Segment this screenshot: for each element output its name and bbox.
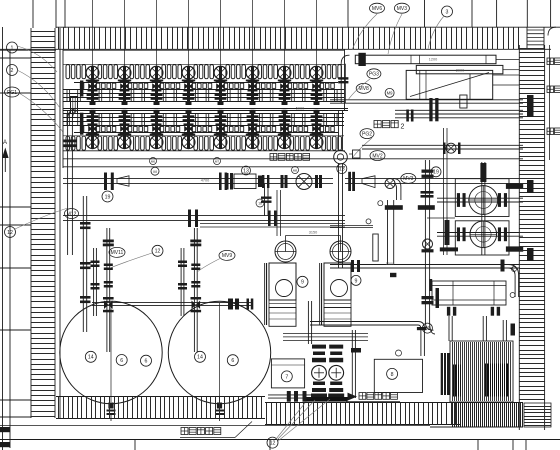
- leader curves left: [15, 46, 68, 229]
- tank T2: [168, 301, 270, 421]
- drop pipe x266: [261, 184, 272, 216]
- pipe A flange pair mid: [219, 173, 227, 191]
- tag M9: [385, 88, 394, 97]
- bubble 13 elbow: [422, 323, 432, 333]
- dim text 1: [429, 58, 437, 62]
- bubble 8: [387, 368, 398, 379]
- blower pipe 1: [437, 198, 523, 202]
- left margin black bar 2: [0, 442, 10, 447]
- bubble 12 tanks: [152, 245, 163, 256]
- drop pipe square box: [349, 150, 360, 158]
- pump top pipes: [283, 330, 368, 398]
- svg-text:M9: M9: [387, 91, 393, 96]
- svg-text:9: 9: [301, 280, 304, 286]
- corner fine hatch block: [450, 341, 513, 402]
- svg-text:PG2: PG2: [362, 131, 372, 137]
- flange pair x432: [429, 98, 438, 121]
- riser valve circle: [422, 239, 434, 252]
- valve unit row1 #2: [118, 0, 131, 105]
- svg-text:MV11: MV11: [111, 250, 124, 256]
- bubble 14 T1: [85, 351, 96, 362]
- corner dark bars: [441, 353, 450, 395]
- pipe B extra pair: [200, 224, 345, 227]
- long line under modules: [63, 151, 523, 167]
- bottom stub lines: [135, 440, 526, 450]
- wall hatching top band: [0, 27, 560, 49]
- mid pipe A: [63, 179, 333, 184]
- dim text 4: [201, 179, 209, 183]
- svg-text:PG1: PG1: [7, 90, 17, 96]
- capsule row1: [63, 64, 344, 78]
- tiny bubble b: [366, 219, 371, 224]
- blower pipe 2: [437, 233, 523, 237]
- gauge PG2: [360, 129, 374, 139]
- right wall flange 3: [527, 248, 534, 261]
- black bar x437: [436, 288, 440, 308]
- bubble 13 pipeA: [242, 166, 251, 175]
- svg-text:1500: 1500: [386, 262, 394, 266]
- pipe y180 flange pair: [348, 172, 355, 191]
- bubble 9 skid: [297, 276, 308, 287]
- section arrow A: [2, 140, 9, 172]
- svg-text:2: 2: [11, 68, 14, 74]
- label yubeilianjiekou: [180, 422, 252, 438]
- tiny tag m8: [292, 167, 299, 174]
- wall hatching bottom band left: [56, 397, 265, 419]
- valve unit row2 #5: [214, 110, 227, 149]
- corner lower dense band: [430, 403, 523, 428]
- tag MV8: [356, 83, 371, 93]
- tank leader curves: [110, 253, 221, 272]
- rect wall connectors: [493, 60, 519, 86]
- svg-text:19: 19: [105, 194, 111, 200]
- rack rail row1: [74, 82, 338, 84]
- svg-text:6: 6: [120, 358, 123, 364]
- pipe y266: [330, 260, 520, 272]
- label nongye-paifangkou: [270, 154, 310, 161]
- bubble 6 T1a: [116, 355, 127, 366]
- top tag MV6: [370, 3, 385, 13]
- wall hatching bottom band right: [265, 403, 460, 425]
- box 7: [271, 359, 304, 388]
- bottom frame line 2: [0, 439, 560, 441]
- center header pipe: [63, 109, 348, 111]
- tiny tag m7: [214, 158, 221, 165]
- valve unit row2 #4: [182, 110, 195, 149]
- blower U2: [470, 221, 497, 248]
- black duct r2: [506, 246, 523, 251]
- pipe B flange pair: [268, 211, 277, 227]
- svg-text:12: 12: [155, 249, 161, 255]
- black duct r1: [506, 184, 523, 189]
- svg-text:MV3: MV3: [397, 6, 408, 12]
- blower box upper: [455, 179, 509, 217]
- capsule row2: [63, 136, 344, 150]
- riser V2: [80, 196, 91, 332]
- pipe y100: [330, 100, 523, 103]
- pipe A flange pair right: [262, 175, 269, 188]
- top bubble 3: [442, 6, 453, 17]
- top leader curves: [348, 14, 444, 158]
- riser flange y205: [418, 205, 435, 210]
- svg-text:12: 12: [270, 440, 276, 446]
- top right corner arc: [548, 27, 556, 35]
- line y218 right: [427, 217, 455, 219]
- valve unit row1 #6: [246, 0, 259, 105]
- mid pipe B: [63, 216, 345, 221]
- valve unit row1 #3: [150, 0, 163, 105]
- manifold pipes row1: [63, 90, 344, 102]
- valve unit row2 #6: [246, 110, 259, 149]
- blower box lower: [455, 221, 509, 255]
- pump P2: [328, 345, 344, 398]
- bubble 13 drop: [337, 164, 347, 174]
- valve tag M12: [65, 209, 79, 219]
- pipe y266 black flange: [501, 260, 505, 272]
- left margin frame lines: [0, 27, 56, 450]
- rack rail row2: [74, 132, 338, 134]
- elbow x397 down: [393, 179, 401, 200]
- pump feed riser: [308, 301, 311, 344]
- svg-text:MV6: MV6: [372, 6, 383, 12]
- tiny tag m6: [150, 158, 157, 165]
- svg-text:M: M: [153, 169, 156, 174]
- main riser x427: [422, 160, 436, 334]
- pipe A valve box: [226, 173, 265, 190]
- svg-text:19: 19: [433, 170, 439, 176]
- svg-text:6: 6: [231, 358, 234, 364]
- valve unit row1 #7: [278, 0, 291, 105]
- row1 left end cap: [80, 81, 83, 97]
- equipment rect: [406, 70, 493, 99]
- tag MV11: [109, 247, 125, 257]
- bottom frame line 1: [0, 425, 430, 427]
- valve circle y182: [385, 179, 395, 189]
- cross pipe end black: [228, 299, 239, 310]
- bubble 19 riser: [431, 167, 441, 177]
- valve unit row2 #1: [86, 110, 99, 149]
- blower U1: [468, 185, 498, 215]
- row2 left end cap: [80, 113, 83, 135]
- valve unit row2 #3: [150, 110, 163, 149]
- svg-text:M12: M12: [67, 211, 77, 217]
- top grid lines: [33, 0, 551, 28]
- gauge PG1: [5, 87, 20, 97]
- aeration duct: [429, 279, 506, 305]
- svg-text:14: 14: [197, 355, 203, 361]
- dim text 5: [386, 262, 394, 266]
- header right drop pipe: [339, 111, 343, 150]
- manifold ticks row2: [67, 114, 337, 126]
- module zone frame: [63, 49, 345, 168]
- svg-text:8: 8: [391, 372, 394, 378]
- svg-text:12: 12: [7, 230, 13, 236]
- black duct l1: [440, 247, 458, 251]
- svg-text:2000: 2000: [456, 69, 464, 73]
- tag MV3 mid: [401, 173, 416, 183]
- vert pipe x390: [385, 200, 403, 277]
- valve unit row1 #4: [182, 0, 195, 105]
- wall hatching left ladder: [31, 28, 60, 418]
- dim text 3: [296, 107, 304, 111]
- bubble M7: [151, 167, 159, 175]
- header end cap: [71, 97, 78, 114]
- drain arrow: [348, 393, 358, 401]
- bubble 6 T1b: [141, 355, 152, 366]
- skid1 feed pipe: [277, 190, 281, 236]
- pump left pipe: [268, 391, 312, 402]
- dim text 2: [456, 69, 464, 73]
- valve unit row2 #8: [310, 110, 323, 149]
- svg-text:A: A: [3, 140, 7, 146]
- grid bubble 2: [7, 65, 18, 76]
- svg-text:4700: 4700: [201, 179, 209, 183]
- riser flange y191: [421, 191, 434, 198]
- bubble 9 skid2: [351, 275, 361, 285]
- pipe y226: [330, 225, 373, 227]
- box 8: [374, 359, 422, 392]
- duct beam 2: [416, 65, 503, 73]
- svg-text:13: 13: [339, 166, 345, 172]
- right wall flange 2: [527, 180, 534, 193]
- label fangkongkou2: [374, 121, 405, 131]
- manifold ticks row1: [67, 89, 337, 101]
- black bar wall bottom: [511, 324, 516, 336]
- pipe y118: [395, 117, 523, 119]
- manifold pipes row2: [63, 114, 344, 126]
- skid unit 2: [320, 236, 352, 327]
- svg-text:7: 7: [285, 374, 288, 380]
- right wall flange 1: [527, 95, 534, 117]
- tank T2 feed valves: [178, 228, 201, 352]
- left margin black bar 1: [0, 427, 10, 432]
- valve on y148: [443, 143, 461, 155]
- wall elbow down: [508, 265, 519, 298]
- svg-text:3150: 3150: [309, 231, 317, 235]
- tank T1: [60, 301, 162, 421]
- bubble 7: [281, 371, 292, 382]
- valve unit row2 #2: [118, 110, 131, 149]
- corner medium bars: [454, 363, 508, 396]
- svg-text:13: 13: [243, 168, 249, 174]
- pump base: [305, 397, 348, 402]
- bottom leader fan: [276, 399, 330, 441]
- duct drop line: [469, 74, 471, 100]
- valve unit row1 #1: [86, 0, 99, 105]
- pipe A flange block: [104, 173, 129, 191]
- valve unit row1 #5: [214, 0, 227, 105]
- vert pipe x445: [444, 128, 450, 255]
- tiny bubble a: [378, 201, 383, 206]
- riser V1: [64, 109, 79, 256]
- drain flange circle: [334, 150, 348, 164]
- svg-text:M7: M7: [215, 160, 219, 164]
- svg-text:3: 3: [446, 9, 449, 15]
- svg-text:9: 9: [355, 278, 358, 284]
- valve unit row2 #7: [278, 110, 291, 149]
- right riser from modules: [339, 163, 343, 268]
- right edge label fangkong: [547, 58, 560, 65]
- svg-text:MV2: MV2: [372, 153, 383, 159]
- gauge PG3: [367, 69, 381, 79]
- U2 flanges: [457, 227, 507, 241]
- grid bubble 1: [7, 42, 18, 53]
- mid pipe y323: [310, 322, 426, 357]
- top tag MV3: [394, 3, 409, 13]
- rack stubs row2: [80, 127, 334, 132]
- elbow riser left: [338, 55, 349, 103]
- pipe y180 right: [345, 179, 520, 184]
- pipe y148: [362, 145, 523, 149]
- svg-text:6: 6: [145, 359, 148, 365]
- svg-text:PG3: PG3: [369, 72, 379, 78]
- pipe y110: [395, 110, 523, 114]
- bubble 14 T2: [195, 351, 206, 362]
- wall hatching top-right ladder: [527, 27, 544, 49]
- svg-text:MV9: MV9: [222, 253, 233, 259]
- skid unit 1: [265, 236, 297, 327]
- label yushuipaishuikou: [346, 393, 400, 402]
- duct beam 1: [355, 55, 496, 64]
- svg-text:2: 2: [401, 124, 405, 131]
- duct bolt: [358, 53, 365, 66]
- valve unit row1 #8: [310, 0, 323, 105]
- bubble 19: [102, 191, 113, 202]
- pump P1: [311, 345, 327, 398]
- bracket y100: [460, 95, 467, 108]
- svg-text:1200: 1200: [429, 58, 437, 62]
- right edge label fanchong: [547, 128, 560, 135]
- svg-text:M8: M8: [293, 169, 297, 173]
- grid bubble 12 left: [5, 227, 16, 238]
- tank cross pipe: [92, 299, 253, 310]
- wall hatching right ladder: [519, 45, 549, 430]
- svg-text:M6: M6: [151, 160, 155, 164]
- flange x408: [406, 110, 413, 122]
- filter column: [373, 234, 378, 261]
- U1 flanges: [457, 193, 507, 207]
- tiny bubble 15: [510, 293, 515, 298]
- svg-text:5000: 5000: [296, 107, 304, 111]
- tag MV9: [219, 250, 235, 260]
- blower riser: [480, 162, 486, 255]
- tiny bubble box8: [396, 350, 402, 356]
- tiny gauge 16: [256, 199, 264, 207]
- bubble 12 bottom: [267, 437, 278, 448]
- skid link line: [286, 231, 341, 236]
- right corner ladder box: [524, 403, 551, 427]
- tank T1 feed valves: [91, 228, 114, 352]
- tag MV2: [370, 151, 385, 161]
- pipe B flange block: [188, 210, 198, 228]
- svg-text:14: 14: [88, 355, 94, 361]
- right edge label chushui: [547, 86, 560, 93]
- pipe y180 reducer: [362, 176, 375, 188]
- bubble 6 T2: [227, 355, 238, 366]
- pump suction pipes: [447, 307, 507, 341]
- svg-text:13: 13: [425, 326, 431, 332]
- svg-text:MV3: MV3: [403, 176, 414, 182]
- rack stubs row1: [80, 83, 334, 88]
- pipe A valve circle: [281, 174, 323, 190]
- svg-text:1: 1: [11, 45, 14, 51]
